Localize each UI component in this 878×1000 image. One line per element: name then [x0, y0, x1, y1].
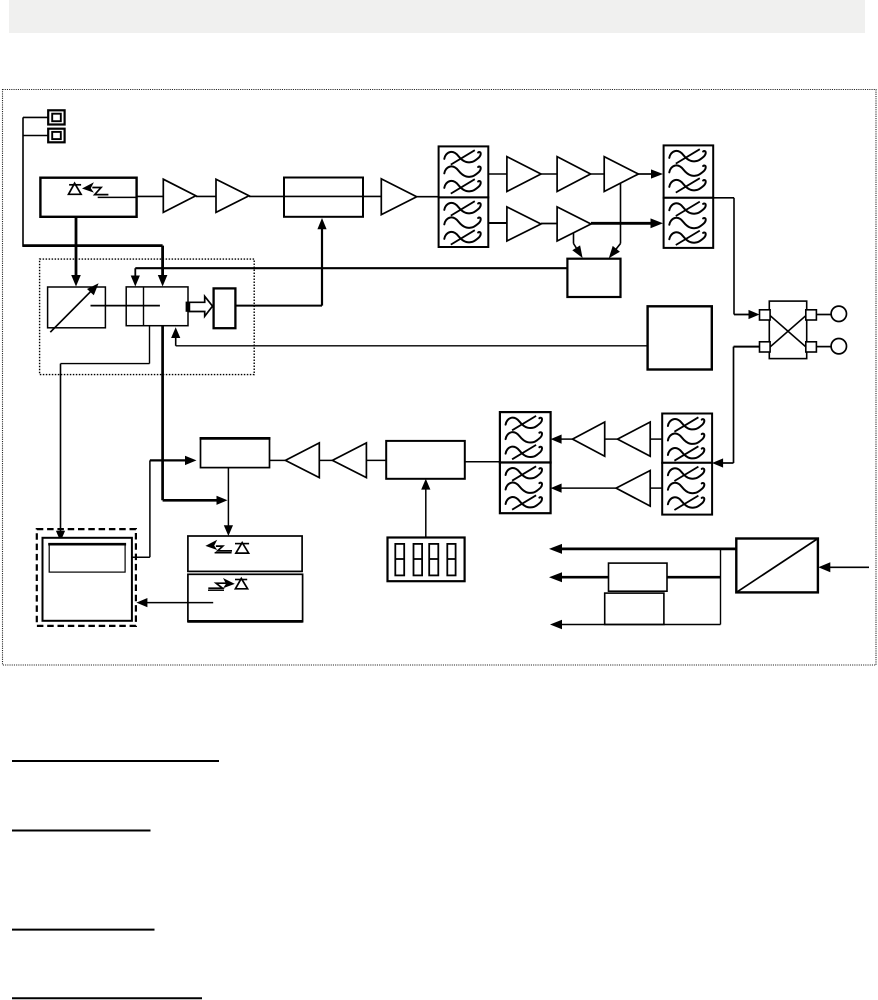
filter FL3 bottom — [500, 463, 551, 514]
wire FL1 to A7 — [488, 222, 507, 224]
PLL dotted box — [40, 259, 255, 375]
wire tap diagonal into detector right — [609, 244, 621, 259]
wire to port J2 — [23, 135, 48, 137]
wire U4 to U2 vertical arrow — [317, 218, 326, 306]
filter FL3 waves — [506, 416, 542, 510]
switch S1 body — [769, 301, 806, 359]
PSU input arrow — [818, 562, 869, 572]
PSU box — [736, 539, 818, 593]
switch port RB — [806, 342, 817, 352]
amp A4 — [507, 157, 541, 192]
arrow IF down to modem — [136, 598, 213, 607]
filter FL4 top — [662, 414, 712, 463]
thick wire mixer down to junction arrow — [163, 326, 228, 505]
wire tap diagonal into detector left — [572, 244, 582, 259]
filter FL4 bottom — [662, 463, 712, 515]
wire FL4 to A10 — [650, 438, 662, 440]
wire A3 to FL1 — [417, 196, 439, 198]
filter FL1 waves — [444, 150, 480, 244]
switch port RT — [806, 310, 817, 320]
modem inner rect — [48, 544, 126, 572]
wire FL2 to switch — [713, 198, 759, 319]
amp A5 — [557, 157, 591, 192]
wire A2 to A3 through U2 — [249, 195, 381, 197]
amp A12 left — [285, 443, 319, 478]
wire A1 to A2 — [196, 195, 216, 197]
wire A4 to A5 — [541, 173, 557, 175]
box U6 — [386, 441, 465, 479]
box U4 — [214, 288, 236, 328]
box U1 optical module — [40, 178, 136, 217]
wire down to modem arrow — [56, 364, 65, 542]
amp A2 — [216, 179, 249, 212]
IF down symbol diode — [235, 578, 248, 588]
toolbar strip — [9, 0, 865, 33]
arrow DIP up to U6 — [421, 479, 430, 538]
heading underline 2 — [12, 830, 151, 832]
arrow modem to U7 — [150, 456, 197, 465]
filter FL2 waves — [669, 149, 705, 245]
IF down-converter box — [188, 574, 303, 621]
wire switch to FL4 — [712, 347, 759, 468]
IF up symbol underline — [215, 552, 232, 554]
heading underline 3 — [12, 929, 155, 931]
outer dotted page border — [3, 90, 877, 666]
wire A11 to FL3 arrow — [551, 484, 617, 493]
switch port LB — [760, 342, 771, 352]
port J1 — [48, 110, 64, 124]
power rail middle right — [667, 576, 721, 579]
dashed modem outer box — [37, 529, 136, 626]
wire port bus vertical — [22, 117, 24, 247]
modem box — [43, 538, 132, 621]
box U7 — [200, 438, 271, 468]
wire U1 internal — [98, 196, 137, 198]
amp A13 left — [332, 443, 366, 478]
wire AGC box to mixer — [176, 345, 648, 347]
filter FL2 bottom — [664, 198, 714, 248]
DIP switch box — [388, 538, 465, 582]
arrow U1 to attenuator — [71, 217, 81, 287]
mixer box — [126, 287, 188, 326]
IF up symbol zigzag — [216, 546, 232, 551]
amp A11 left — [616, 471, 650, 507]
arrow into mixer top left — [131, 268, 140, 286]
arrow into mixer top right — [158, 246, 168, 287]
power rail middle left — [549, 572, 609, 582]
block arrow mixer to U4 — [186, 296, 213, 316]
filter FL4 waves — [668, 417, 704, 510]
IF down symbol zigzag — [208, 583, 226, 588]
IF down box bottom edge — [188, 620, 303, 623]
antenna circle 1 — [816, 306, 846, 321]
wire FL1 to A4 — [488, 173, 507, 175]
wire FL3 to U6 — [465, 461, 500, 463]
amp A7 — [507, 207, 541, 241]
arrow U7 down to IF box — [224, 468, 233, 536]
detector box U3 — [567, 259, 620, 297]
port J2 — [48, 129, 64, 143]
wire to port J1 — [23, 116, 48, 118]
IF up symbol diode — [235, 543, 249, 554]
mixer divider — [143, 287, 145, 326]
power rail top — [549, 544, 736, 554]
DIP switch elements — [395, 544, 455, 576]
wire AGC long to detector — [135, 267, 567, 269]
filter FL2 top — [664, 145, 714, 197]
wire A9 to FL3 arrow — [551, 435, 573, 444]
filter FL3 top — [500, 412, 551, 462]
IF up-converter box — [188, 536, 302, 571]
wire A8 to FL2 arrow thick — [591, 218, 663, 228]
power rail bottom — [550, 620, 721, 629]
wire A13 to A12 — [319, 459, 332, 461]
filter FL1 top — [439, 146, 489, 197]
wire U6 to A13 — [366, 459, 386, 461]
regulator box M2 — [605, 593, 664, 624]
AGC box U5 — [648, 306, 712, 369]
wire A10 to A9 — [605, 438, 618, 440]
wire U1 to A1 — [137, 195, 164, 197]
thick wire ports to mixer — [23, 244, 163, 247]
wire A6 to FL2 arrow — [638, 169, 663, 178]
arrow into mixer bottom — [171, 327, 180, 346]
amp A3 — [381, 179, 416, 215]
regulator box M1 — [609, 563, 668, 591]
wire tap to detector — [620, 183, 622, 244]
wire attenuator to mixer — [91, 305, 160, 307]
heading underline 1 — [12, 760, 219, 762]
wire tap to detector 2 — [573, 233, 575, 244]
symbol diode in U1 — [69, 183, 82, 194]
heading underline 4 — [12, 997, 202, 999]
attenuator box — [48, 287, 106, 328]
IF up symbol arrow — [205, 540, 217, 550]
wire U4 to U2 horizontal — [235, 305, 322, 307]
wire FL4 to A11 — [650, 487, 662, 489]
IF down symbol underline — [208, 589, 224, 591]
wire A5 to A6 — [591, 173, 605, 175]
attenuator diagonal arrow — [50, 283, 98, 332]
amp A1 — [163, 179, 196, 212]
amp A8 — [557, 207, 591, 241]
power bus vertical — [720, 549, 722, 625]
symbol zigzag in U1 — [92, 188, 108, 195]
filter FL1 bottom — [439, 197, 489, 247]
antenna circle 2 — [816, 339, 846, 354]
amp A10 left — [618, 422, 651, 456]
switch cross — [770, 316, 806, 348]
amp A6 — [604, 157, 638, 192]
amp A9 left — [573, 422, 605, 456]
box U2 modulator — [284, 178, 363, 217]
wire A12 to U7 — [270, 459, 286, 461]
wire modem up — [125, 460, 150, 557]
wire mixer down left — [61, 326, 150, 364]
IF down symbol arrow — [223, 578, 235, 588]
wire A7 to A8 — [541, 223, 557, 225]
switch port LT — [760, 310, 771, 320]
symbol arrow in U1 — [82, 182, 94, 192]
